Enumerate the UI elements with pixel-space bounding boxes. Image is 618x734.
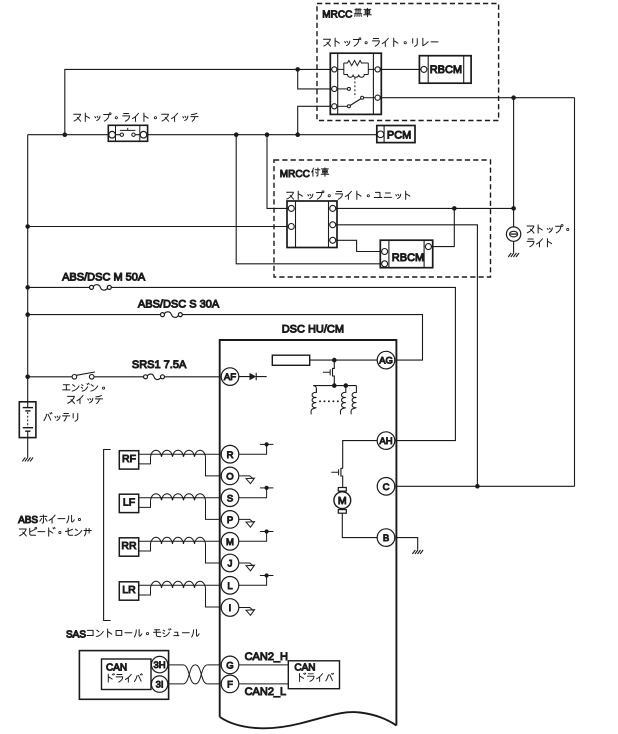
wire: relay output to right rail <box>378 97 575 99</box>
sensor RF leads + twisted coil <box>139 453 220 455</box>
svg-text:RF: RF <box>122 453 136 465</box>
junction: relay feed tap <box>63 132 68 137</box>
pin AG <box>377 351 395 369</box>
relay: stop light relay box <box>330 53 381 114</box>
transistor Q1 (solenoid driver) <box>333 360 335 386</box>
wires G/F to CAN driver <box>239 665 289 684</box>
junction: RBCM2 branch <box>234 132 239 137</box>
wire: stop light branch vertical <box>513 98 515 209</box>
relay coil resistor <box>337 63 375 75</box>
label バッテリ <box>44 413 78 422</box>
pin S <box>221 489 239 507</box>
svg-text:M: M <box>226 537 234 548</box>
junction: lamp node <box>511 206 516 211</box>
label ストップ・ライト・ユニット <box>287 191 410 200</box>
RBCM module (top) <box>419 56 471 83</box>
svg-text:SRS1 7.5A: SRS1 7.5A <box>132 359 187 371</box>
stop light unit box <box>287 201 337 248</box>
sensor LR leads + twisted coil <box>139 584 220 586</box>
twisted pair crossover <box>183 665 208 684</box>
svg-text:SAS: SAS <box>66 630 86 641</box>
ground: stop light <box>508 253 519 257</box>
svg-text:I: I <box>229 603 232 614</box>
svg-text:CAN: CAN <box>106 662 127 673</box>
svg-text:C: C <box>383 482 390 493</box>
svg-text:3H: 3H <box>154 660 166 671</box>
pin I <box>221 599 239 617</box>
pin B <box>377 529 395 547</box>
wire: motor to B pin <box>342 513 386 537</box>
pin O <box>221 467 239 485</box>
pin AH <box>377 432 395 450</box>
wire: stop light switch row to PCM <box>28 134 378 136</box>
SAS control module box <box>79 651 168 700</box>
wire: relay coil feed top row <box>65 69 335 134</box>
svg-text:F: F <box>227 680 233 691</box>
pin G <box>221 656 239 674</box>
wire: rect to AG <box>310 359 386 361</box>
transistor Q2 (pump motor driver) <box>341 468 343 487</box>
wheel speed sensor LR <box>119 582 138 600</box>
svg-text:AG: AG <box>379 356 393 367</box>
wire: ABS/DSC M 50A row to AH pin <box>28 287 456 440</box>
junction: rail S30A row <box>25 312 30 317</box>
junction: relay coil row <box>295 67 300 72</box>
svg-text:O: O <box>226 472 233 483</box>
power tap symbol <box>239 488 267 498</box>
wire: C pin row <box>396 485 574 487</box>
dashed box: MRCC付車 (with MRCC) <box>274 160 491 277</box>
label ストップ・ライト (lamp) <box>527 225 569 234</box>
sensor LF leads + twisted coil <box>139 497 220 499</box>
pin L <box>221 577 239 595</box>
wire: ABS/DSC S 30A row to AG pin <box>28 315 423 361</box>
pin P <box>221 511 239 529</box>
svg-text:MRCC: MRCC <box>322 9 352 20</box>
label ストップ・ライト・スイッチ <box>74 113 198 122</box>
wire: relay switch feed from battery row <box>298 106 335 134</box>
wire: stop light unit top-left pin feed <box>267 135 291 209</box>
fuse ABS/DSC M 50A <box>90 285 94 289</box>
ground arrow symbol <box>239 608 254 611</box>
ground arrow symbol <box>239 476 254 479</box>
solenoid coil 2 <box>341 386 346 415</box>
wire: stop light lamp leads <box>513 208 515 252</box>
stop light switch <box>108 125 147 141</box>
svg-text:DSC HU/CM: DSC HU/CM <box>282 323 344 335</box>
diode after AF <box>239 373 267 380</box>
svg-text:CAN: CAN <box>294 663 315 674</box>
svg-text:P: P <box>227 515 233 526</box>
fuse SRS1 7.5A <box>144 375 148 379</box>
svg-text:S: S <box>227 493 233 504</box>
junction: lamp row / RBCM2 branch <box>452 206 457 211</box>
wire: SRS1 row battery to AF <box>28 376 220 378</box>
svg-text:J: J <box>228 559 233 570</box>
stop light lamp <box>506 227 520 241</box>
relay pins <box>332 67 337 72</box>
svg-text:LR: LR <box>122 584 136 596</box>
svg-text:ABS: ABS <box>18 515 38 526</box>
svg-text:G: G <box>226 661 233 672</box>
solenoid coil 1 <box>313 386 316 393</box>
wire: unit mid-right pin to C row <box>333 225 478 487</box>
wire: unit top-right pin to stop light <box>333 207 514 209</box>
DSC HU/CM box <box>220 340 397 726</box>
wires: 3H/3I to G/F with twisted pair <box>168 664 220 666</box>
RBCM module (lower) <box>380 240 432 268</box>
wheel speed sensor LF <box>119 494 138 512</box>
relay coil <box>344 75 369 78</box>
wire: relay mid pin feed <box>298 69 335 89</box>
battery <box>19 402 36 438</box>
svg-text:CAN2_H: CAN2_H <box>245 651 288 663</box>
ground: B pin <box>412 550 423 554</box>
wire: relay top pin to RBCM <box>378 68 424 70</box>
svg-text:CAN2_L: CAN2_L <box>245 686 287 698</box>
wire: RBCM2 right pin up to stop light row <box>428 208 454 246</box>
junction: unit branch <box>265 132 270 137</box>
pin C <box>377 478 395 496</box>
ground arrow symbol <box>239 519 254 522</box>
PCM module <box>377 126 415 143</box>
pin 3I <box>151 676 167 692</box>
junction: C row node <box>475 484 480 489</box>
junction: PCM row / relay switch feed <box>295 132 300 137</box>
wire: B pin to ground <box>396 538 417 550</box>
wire: unit lower-right pin to RBCM2 <box>333 240 385 251</box>
pin 3H <box>151 656 167 672</box>
engine switch <box>76 372 95 375</box>
wheel speed sensor RR <box>119 538 138 556</box>
sensor RR leads + twisted coil <box>139 540 220 542</box>
svg-text:LF: LF <box>123 496 135 508</box>
wire: AH to motor branch <box>377 440 386 442</box>
CAN driver box (SAS) <box>102 659 152 690</box>
junction: rail to unit row <box>25 224 30 229</box>
svg-text:RR: RR <box>121 540 137 552</box>
pin AF <box>221 368 239 386</box>
junction: rail SRS row <box>25 375 30 380</box>
junction: rail M50A row <box>25 285 30 290</box>
label エンジン・スイッチ <box>63 383 105 391</box>
svg-text:ABS/DSC M 50A: ABS/DSC M 50A <box>62 271 146 283</box>
pin M <box>221 533 239 551</box>
wire: column to RBCM2 lower pin <box>236 135 384 264</box>
svg-text:ABS/DSC S 30A: ABS/DSC S 30A <box>138 299 220 311</box>
relay switch contacts <box>337 88 348 90</box>
ground: battery <box>22 457 33 461</box>
svg-text:3I: 3I <box>156 680 164 691</box>
dashed box: MRCC無車 (without MRCC) <box>317 4 499 121</box>
solenoid coil 3 <box>351 386 356 415</box>
power tap symbol <box>239 444 267 454</box>
svg-text:MRCC: MRCC <box>280 169 310 180</box>
CAN driver box (DSC) <box>288 661 339 689</box>
solenoid bus <box>313 385 356 387</box>
pump motor M <box>338 488 346 492</box>
pin F <box>221 675 239 693</box>
junction: relay output / lamp branch <box>511 95 516 100</box>
relay actuation dashed link <box>354 78 356 98</box>
label ストップ・ライト・リレー <box>324 38 438 47</box>
valve relay rectangle <box>272 355 309 365</box>
svg-text:RBCM: RBCM <box>392 252 424 264</box>
svg-text:R: R <box>227 450 234 461</box>
fuse ABS/DSC S 30A <box>161 313 165 317</box>
wheel speed sensor RF <box>119 451 138 469</box>
ground arrow symbol <box>239 563 254 566</box>
pin J <box>221 554 239 572</box>
power tap symbol <box>239 576 267 586</box>
svg-text:B: B <box>383 533 389 544</box>
svg-text:M: M <box>338 495 347 507</box>
power tap symbol <box>239 532 267 542</box>
ellipsis dotted line <box>320 400 341 402</box>
wire: battery left rail <box>27 135 29 408</box>
svg-text:AF: AF <box>224 372 236 383</box>
ABS sensor bracket <box>104 450 111 621</box>
svg-text:AH: AH <box>379 436 392 447</box>
pin R <box>221 445 239 463</box>
DSC box torn bottom edge <box>220 712 397 728</box>
wire: rail to unit bottom-left pin <box>28 226 292 228</box>
svg-text:PCM: PCM <box>387 129 411 141</box>
svg-text:L: L <box>227 581 232 592</box>
wire: right rail down to C pin row <box>574 98 576 487</box>
svg-text:RBCM: RBCM <box>430 64 462 76</box>
